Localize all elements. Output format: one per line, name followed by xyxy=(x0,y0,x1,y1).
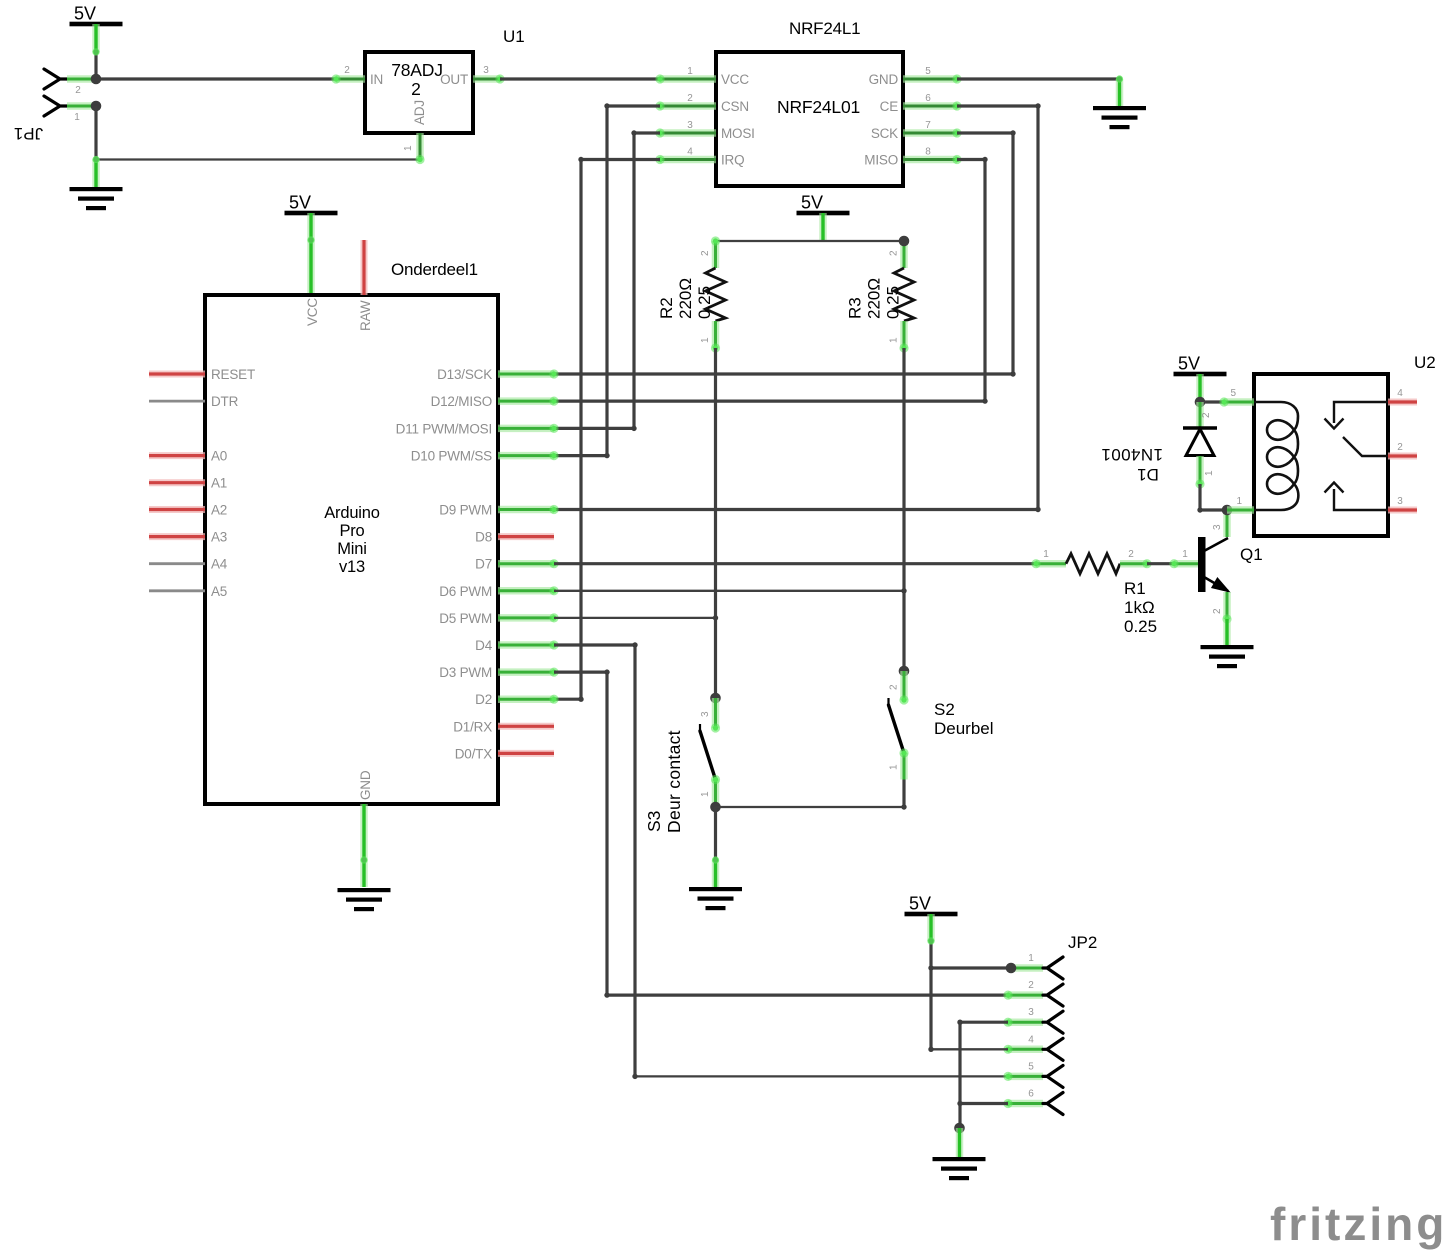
resistor R2 pin 1 leg xyxy=(712,321,720,348)
wire NRF IRQ to Arduino D2 xyxy=(581,158,660,161)
connector JP2 pin 5 arrow xyxy=(1043,1065,1063,1087)
svg-text:Arduino: Arduino xyxy=(324,504,379,522)
resistor R2 body xyxy=(706,268,726,321)
wire R2 to S3 node xyxy=(714,348,717,698)
svg-text:2: 2 xyxy=(1028,980,1034,991)
svg-text:3: 3 xyxy=(687,120,693,131)
wire Arduino D5 to S3 (tee into R2 column) xyxy=(554,617,716,619)
svg-text:8: 8 xyxy=(925,147,931,158)
wire 5V rail R2-top to R3-top xyxy=(716,240,905,242)
transistor Q1 emitter leg xyxy=(1223,592,1231,619)
resistor R1 body xyxy=(1066,554,1120,574)
Arduino pin D0/TX leg xyxy=(498,750,554,757)
wire NRF GND to ground xyxy=(957,77,1120,80)
svg-text:1: 1 xyxy=(687,66,693,77)
ground (Q1 emitter) xyxy=(1201,645,1254,649)
NRF24L01 pin 4 IRQ leg xyxy=(660,156,716,164)
connector JP2 pin 1 leg xyxy=(1008,964,1043,972)
connector JP1 pin 2 arrow xyxy=(44,69,67,89)
U1 pin 2 IN leg xyxy=(336,75,365,83)
svg-text:RAW: RAW xyxy=(358,300,373,331)
svg-text:U1: U1 xyxy=(503,27,525,46)
wire Arduino D6 to S2 (tee into R3 column) xyxy=(554,590,904,592)
svg-text:VCC: VCC xyxy=(305,298,320,326)
relay pin 5 leg (coil+) xyxy=(1224,398,1254,406)
connector JP2 pin 5 leg xyxy=(1008,1073,1043,1081)
connector JP2 pin 6 leg xyxy=(1008,1100,1043,1108)
svg-text:D12/MISO: D12/MISO xyxy=(431,394,492,409)
NRF24L01 pin 6 CE leg xyxy=(903,102,957,110)
wire 5V rail corner to JP2 pin 4 xyxy=(931,1048,1008,1050)
svg-text:D6 PWM: D6 PWM xyxy=(439,584,492,599)
connector JP2 pin 4 leg xyxy=(1008,1046,1043,1054)
relay pin 3 leg (red) xyxy=(1388,507,1417,514)
wire Arduino D4 to JP2 pin 5 xyxy=(554,643,635,646)
wire JP1 ground leg xyxy=(92,160,100,188)
U1 pin 1 ADJ leg xyxy=(416,133,424,160)
node junction JP2 pin 1 xyxy=(1006,963,1017,974)
connector JP2 pin 2 arrow xyxy=(1043,984,1063,1006)
node junction Q1 collector / relay pin 1 xyxy=(1222,505,1233,516)
Arduino pin RAW leg (red) xyxy=(361,240,368,295)
svg-text:2: 2 xyxy=(889,684,900,690)
svg-text:D3 PWM: D3 PWM xyxy=(439,665,492,680)
wire NRF MOSI to Arduino D11/MOSI xyxy=(634,131,660,134)
svg-text:3: 3 xyxy=(1028,1007,1034,1018)
svg-text:Pro: Pro xyxy=(339,522,364,540)
NRF24L01 pin 5 GND leg xyxy=(903,75,957,83)
wire U1 OUT to NRF24L01 VCC xyxy=(500,77,660,80)
switch S3 node junction (D5/R2) xyxy=(710,693,721,704)
relay pin 2 leg (red) xyxy=(1388,453,1417,460)
svg-text:1kΩ: 1kΩ xyxy=(1124,598,1155,617)
svg-text:1: 1 xyxy=(889,764,900,770)
svg-text:D11 PWM/MOSI: D11 PWM/MOSI xyxy=(396,421,492,436)
wire NRF MISO to Arduino D12/MISO xyxy=(957,158,985,161)
svg-text:VCC: VCC xyxy=(721,72,749,87)
svg-text:MOSI: MOSI xyxy=(721,126,755,141)
relay switch moving contact xyxy=(1343,437,1388,456)
svg-text:S2: S2 xyxy=(934,700,955,719)
svg-text:3: 3 xyxy=(700,711,711,717)
svg-text:2: 2 xyxy=(700,250,711,256)
transistor Q1 collector leg xyxy=(1223,510,1231,537)
svg-text:SCK: SCK xyxy=(871,126,898,141)
svg-text:2: 2 xyxy=(344,65,350,76)
switch S2 pin 1 leg xyxy=(900,753,908,780)
ground (JP2 pins 3/6) xyxy=(933,1157,986,1161)
power 5V symbol (R2/R3 supply) xyxy=(797,211,850,216)
wire 5V to JP2 pin 1 rail xyxy=(927,914,935,941)
wire R1 to Q1 base xyxy=(1147,562,1174,565)
svg-text:D4: D4 xyxy=(475,638,493,653)
svg-text:1: 1 xyxy=(700,791,711,797)
wire 5V leg lower segment xyxy=(94,52,97,79)
node junction R3 top / 5V rail xyxy=(899,236,910,247)
connector JP1 pin 2 leg xyxy=(67,75,96,83)
Arduino pin D12/MISO leg xyxy=(498,397,554,405)
Arduino pin D2 leg xyxy=(498,695,554,703)
svg-text:0.25: 0.25 xyxy=(884,286,903,319)
svg-text:fritzing: fritzing xyxy=(1270,1198,1446,1250)
svg-text:D13/SCK: D13/SCK xyxy=(437,367,492,382)
svg-text:NRF24L01: NRF24L01 xyxy=(777,97,860,117)
node junction JP1 pin 2 xyxy=(91,74,102,85)
svg-text:1: 1 xyxy=(889,337,900,343)
resistor R1 pin 1 leg xyxy=(1036,560,1066,568)
svg-text:2: 2 xyxy=(687,93,693,104)
wire 5V to JP1 pin 2 (green leg) xyxy=(92,24,100,52)
svg-text:DTR: DTR xyxy=(211,394,239,409)
svg-text:GND: GND xyxy=(358,770,373,800)
Arduino pin A3 leg (red) xyxy=(149,533,205,540)
svg-text:2: 2 xyxy=(1128,549,1134,560)
wire Arduino D3 to JP2 pin 2 xyxy=(554,670,607,673)
NRF24L01 pin 3 MOSI leg xyxy=(660,129,716,137)
svg-text:3: 3 xyxy=(1212,524,1223,530)
NRF24L01 pin 1 VCC leg xyxy=(660,75,716,83)
svg-text:Mini: Mini xyxy=(337,540,366,558)
svg-text:3: 3 xyxy=(483,65,489,76)
Arduino pin A1 leg (red) xyxy=(149,479,205,486)
svg-text:D10 PWM/SS: D10 PWM/SS xyxy=(411,449,492,464)
wire JP2 pin 3 to ground column xyxy=(960,1021,1008,1024)
svg-text:D1/RX: D1/RX xyxy=(453,719,492,734)
relay pin 1 leg (coil-) xyxy=(1227,506,1254,514)
svg-text:A1: A1 xyxy=(211,476,227,491)
Arduino pin GND leg (green) xyxy=(360,804,368,887)
svg-text:Onderdeel1: Onderdeel1 xyxy=(391,260,478,279)
resistor R3 body xyxy=(894,268,914,321)
connector JP2 pin 6 arrow xyxy=(1043,1093,1063,1115)
svg-text:JP1: JP1 xyxy=(14,124,43,143)
svg-text:D7: D7 xyxy=(475,557,492,572)
NRF24L01 pin 8 MISO leg xyxy=(903,156,957,164)
svg-text:2: 2 xyxy=(1212,608,1223,614)
connector JP2 pin 3 arrow xyxy=(1043,1011,1063,1033)
svg-text:Deurbel: Deurbel xyxy=(934,719,994,738)
svg-text:5V: 5V xyxy=(801,193,823,213)
diode D1 pin 2 leg (cathode) xyxy=(1196,402,1204,428)
wire JP1 pin1 down to ground corner xyxy=(94,106,97,160)
svg-text:1: 1 xyxy=(1236,496,1242,507)
svg-text:OUT: OUT xyxy=(440,72,468,87)
svg-text:U2: U2 xyxy=(1414,353,1436,372)
svg-text:v13: v13 xyxy=(339,558,365,576)
resistor R3 pin 2 leg xyxy=(900,241,908,268)
node junction S3 pin1 / S2 / ground xyxy=(710,802,721,813)
power 5V symbol (JP2 supply) xyxy=(905,912,958,917)
svg-text:D1: D1 xyxy=(1137,465,1159,484)
Arduino pin D6 PWM leg xyxy=(498,587,554,595)
wire JP2 ground leg xyxy=(956,1128,964,1157)
svg-text:A2: A2 xyxy=(211,503,227,518)
power 5V symbol (JP1 supply) xyxy=(70,22,123,27)
svg-text:A0: A0 xyxy=(211,449,227,464)
svg-text:1: 1 xyxy=(1028,953,1034,964)
svg-text:1N4001: 1N4001 xyxy=(1101,445,1163,464)
svg-text:2: 2 xyxy=(1201,412,1212,418)
power 5V symbol (Arduino VCC supply) xyxy=(285,211,338,216)
wire ground column to JP2 pin 6 xyxy=(960,1102,1008,1105)
wire Arduino D7 to R1 xyxy=(554,562,1036,565)
diode D1 pin 1 leg (anode) xyxy=(1196,456,1204,484)
svg-text:D9 PWM: D9 PWM xyxy=(439,503,492,518)
svg-text:2: 2 xyxy=(75,85,81,96)
svg-text:R3: R3 xyxy=(846,297,865,319)
node junction JP1 pin 1 xyxy=(91,101,102,112)
Arduino pin D10 PWM/SS leg xyxy=(498,452,554,460)
wire 5V to resistor rail xyxy=(819,213,827,241)
Arduino pin D13/SCK leg xyxy=(498,370,554,378)
NRF24L01 pin 2 CSN leg xyxy=(660,102,716,110)
svg-text:1: 1 xyxy=(700,337,711,343)
svg-text:3: 3 xyxy=(1397,496,1403,507)
svg-text:1: 1 xyxy=(1182,549,1188,560)
wire node to relay pin 5 xyxy=(1200,400,1224,403)
svg-text:JP2: JP2 xyxy=(1068,933,1097,952)
svg-text:D0/TX: D0/TX xyxy=(455,746,492,761)
svg-text:5: 5 xyxy=(1028,1061,1034,1072)
svg-text:D2: D2 xyxy=(475,692,492,707)
Arduino pin D4 leg xyxy=(498,641,554,649)
svg-text:A5: A5 xyxy=(211,584,227,599)
svg-text:2: 2 xyxy=(1397,442,1403,453)
wire 5V to Arduino VCC xyxy=(307,213,315,295)
svg-text:5: 5 xyxy=(1230,388,1236,399)
wire D1 anode to Q1 collector node xyxy=(1198,484,1201,510)
svg-text:D8: D8 xyxy=(475,530,492,545)
wire 5V to node at D1 cathode xyxy=(1196,374,1204,402)
switch S2 node junction (D6/R3) xyxy=(899,666,910,677)
RF module NRF24L1 box xyxy=(716,52,903,186)
switch S3 pin 1 leg xyxy=(712,780,720,808)
wire 5V rail to JP2 pin 1 xyxy=(931,966,1011,969)
svg-text:CE: CE xyxy=(880,99,899,114)
svg-text:4: 4 xyxy=(1397,388,1403,399)
U1 pin 3 OUT leg xyxy=(473,75,500,83)
Arduino pin DTR leg (gray) xyxy=(149,400,205,403)
relay pin 4 leg (red) xyxy=(1388,399,1417,406)
svg-text:NRF24L1: NRF24L1 xyxy=(789,19,860,38)
relay switch common wire (pin 4) xyxy=(1334,402,1388,423)
svg-text:220Ω: 220Ω xyxy=(865,278,884,319)
svg-text:6: 6 xyxy=(1028,1089,1034,1100)
svg-text:220Ω: 220Ω xyxy=(676,278,695,319)
wire NRF CE to Arduino D9 xyxy=(957,104,1038,107)
connector JP2 pin 1 arrow xyxy=(1043,957,1063,979)
svg-text:2: 2 xyxy=(889,250,900,256)
svg-text:Q1: Q1 xyxy=(1240,545,1263,564)
svg-text:R2: R2 xyxy=(657,297,676,319)
svg-text:IRQ: IRQ xyxy=(721,153,744,168)
svg-text:GND: GND xyxy=(869,72,899,87)
svg-text:1: 1 xyxy=(403,145,414,151)
svg-text:5V: 5V xyxy=(74,4,96,24)
svg-text:0.25: 0.25 xyxy=(1124,617,1157,636)
ground (JP1) xyxy=(70,187,123,191)
voltage regulator U1 box xyxy=(365,52,473,133)
switch S3 pin 3 leg xyxy=(712,698,720,728)
resistor R1 pin 2 leg xyxy=(1120,560,1147,568)
svg-text:A4: A4 xyxy=(211,557,228,572)
Arduino pin A2 leg (red) xyxy=(149,506,205,513)
svg-text:6: 6 xyxy=(925,93,931,104)
svg-text:2: 2 xyxy=(411,79,421,99)
connector JP1 pin 1 leg xyxy=(67,102,96,110)
relay switch NO contact wire (pin 3) xyxy=(1334,489,1388,510)
svg-text:1: 1 xyxy=(1043,549,1049,560)
relay coil xyxy=(1254,402,1298,510)
ground (Arduino GND) xyxy=(338,888,391,892)
Arduino pin D11 PWM/MOSI leg xyxy=(498,425,554,433)
resistor R2 pin 2 leg xyxy=(712,241,720,268)
wire NRF CSN to Arduino D10/SS xyxy=(607,104,660,107)
power 5V symbol (relay/Q1 supply) xyxy=(1174,372,1227,377)
svg-text:5V: 5V xyxy=(289,193,311,213)
wire S3 to ground xyxy=(714,807,717,860)
svg-text:4: 4 xyxy=(687,147,693,158)
svg-text:RESET: RESET xyxy=(211,367,255,382)
switch S3 blade xyxy=(699,724,701,733)
svg-text:5V: 5V xyxy=(909,894,931,914)
wire ground corner to U1 ADJ (bottom run) xyxy=(96,158,420,160)
svg-text:ADJ: ADJ xyxy=(412,100,427,125)
wire R3 to S2 node xyxy=(902,348,905,671)
resistor R3 pin 1 leg xyxy=(900,321,908,348)
Arduino pin D3 PWM leg xyxy=(498,668,554,676)
switch S2 pin 2 leg xyxy=(900,671,908,700)
svg-text:5V: 5V xyxy=(1178,354,1200,374)
connector JP2 pin 2 leg xyxy=(1008,991,1043,999)
ground (S3/S2 switches) xyxy=(689,887,742,891)
Arduino pin A5 leg (gray) xyxy=(149,589,205,592)
svg-text:MISO: MISO xyxy=(864,153,898,168)
switch S2 blade xyxy=(887,698,889,707)
svg-text:78ADJ: 78ADJ xyxy=(391,60,443,80)
svg-text:Deur contact: Deur contact xyxy=(664,730,684,833)
svg-text:7: 7 xyxy=(925,120,931,131)
svg-text:1: 1 xyxy=(74,112,80,123)
svg-text:4: 4 xyxy=(1028,1034,1034,1045)
svg-text:0.25: 0.25 xyxy=(695,286,714,319)
svg-text:R1: R1 xyxy=(1124,579,1146,598)
Arduino pin RESET leg (red) xyxy=(149,371,205,378)
Arduino pin A0 leg (red) xyxy=(149,452,205,459)
relay U2 box xyxy=(1254,374,1388,536)
svg-text:CSN: CSN xyxy=(721,99,749,114)
wire S2 to S3 node xyxy=(902,780,905,808)
Arduino pin A4 leg (gray) xyxy=(149,562,205,565)
svg-text:S3: S3 xyxy=(644,811,664,832)
connector JP1 pin 1 arrow xyxy=(44,96,67,116)
transistor Q1 body xyxy=(1198,537,1206,592)
Arduino pin D8 leg xyxy=(498,533,554,540)
ground (NRF24L01 GND) xyxy=(1093,106,1146,110)
svg-text:1: 1 xyxy=(1204,470,1215,476)
Arduino pin D1/RX leg xyxy=(498,723,554,730)
NRF24L01 pin 7 SCK leg xyxy=(903,129,957,137)
svg-text:IN: IN xyxy=(370,72,383,87)
diode D1 body 1N4001 xyxy=(1183,426,1217,430)
svg-text:5: 5 xyxy=(925,66,931,77)
Arduino pin D7 leg xyxy=(498,560,554,568)
Arduino pin D5 PWM leg xyxy=(498,614,554,622)
transistor Q1 base leg xyxy=(1174,560,1198,568)
connector JP2 pin 3 leg xyxy=(1008,1018,1043,1026)
node junction JP2 ground xyxy=(954,1123,965,1134)
wire JP1 pin2 to U1 IN xyxy=(96,77,336,80)
wire NRF SCK to Arduino D13/SCK xyxy=(957,131,1013,134)
connector JP2 pin 4 arrow xyxy=(1043,1038,1063,1060)
svg-text:A3: A3 xyxy=(211,530,227,545)
microcontroller Onderdeel1 Arduino Pro Mini box xyxy=(205,295,498,804)
node junction 5V / D1 / relay pin 5 xyxy=(1195,397,1206,408)
svg-text:D5 PWM: D5 PWM xyxy=(439,611,492,626)
Arduino pin D9 PWM leg xyxy=(498,506,554,514)
